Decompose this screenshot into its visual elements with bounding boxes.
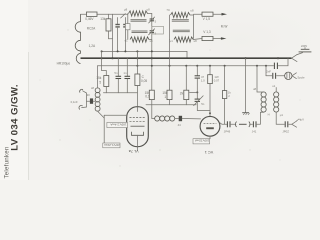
tube VL7a bottom pin stub xyxy=(137,147,139,151)
tube VC1 bottom stub xyxy=(209,136,211,139)
antenna coil xyxy=(95,88,100,111)
svg-text:VC 1: VC 1 xyxy=(205,150,213,154)
measurement box 185V,2,4mA xyxy=(107,122,128,127)
resistor box C column x186.3 xyxy=(185,66,187,90)
cap column x127.3 xyxy=(126,58,128,76)
mains plug xyxy=(292,55,298,62)
tube VL7a envelope xyxy=(127,107,149,147)
svg-text:u8: u8 xyxy=(190,9,194,13)
svg-text:0,46V: 0,46V xyxy=(85,17,94,21)
svg-text:30: 30 xyxy=(87,93,91,97)
svg-text:H: H xyxy=(268,112,270,116)
svg-text:4μV: 4μV xyxy=(299,118,304,122)
svg-text:μ8: μ8 xyxy=(124,8,128,12)
svg-text:V 1,3: V 1,3 xyxy=(203,30,211,34)
junction dots on rails xyxy=(101,50,280,114)
IF2 primary zigzag xyxy=(171,12,191,17)
svg-text:1,0: 1,0 xyxy=(201,79,205,83)
svg-text:Telefunken: Telefunken xyxy=(3,147,10,179)
wire to output resistor top xyxy=(190,14,193,16)
IF1 secondary coil zigzag xyxy=(130,37,149,42)
tube VC1 right pin wire xyxy=(220,123,227,125)
cap C3 chain xyxy=(284,121,286,127)
wire up to choke1 xyxy=(257,112,264,124)
lamp fork xyxy=(292,73,296,79)
cap C1 chain xyxy=(226,121,228,127)
cathode rail y92.7 xyxy=(103,92,137,94)
svg-text:u1: u1 xyxy=(272,84,276,88)
page crease line xyxy=(28,52,30,180)
scan speckles xyxy=(39,29,300,166)
svg-text:1: 1 xyxy=(164,95,166,99)
resistor box A on column x151.8 xyxy=(149,90,154,99)
svg-text:220V: 220V xyxy=(301,44,307,48)
dial lamp xyxy=(285,72,292,79)
variable cap with arrow xyxy=(195,98,200,100)
choke coil 2 xyxy=(274,92,279,112)
svg-text:0,05: 0,05 xyxy=(141,79,147,83)
svg-text:HR100μe: HR100μe xyxy=(57,61,71,65)
IF2 right column xyxy=(192,15,194,39)
svg-text:JP49: JP49 xyxy=(224,130,231,134)
IF2 core bars top xyxy=(172,19,189,21)
svg-text:180V,52mA: 180V,52mA xyxy=(195,139,209,143)
choke coil 1 xyxy=(261,92,266,112)
small box on column xyxy=(125,24,130,30)
output resistor V1,5 top xyxy=(202,12,213,16)
svg-text:2nF: 2nF xyxy=(266,69,271,73)
svg-text:s8: s8 xyxy=(91,86,94,90)
IF transformer 1 left column xyxy=(127,14,129,40)
chassis symbol xyxy=(242,112,249,114)
svg-text:LV 034 G/GW.: LV 034 G/GW. xyxy=(10,84,21,151)
lower rail y65.8 xyxy=(98,65,274,67)
IF1 core bars top xyxy=(131,19,147,21)
svg-text:JP0Z: JP0Z xyxy=(282,130,289,134)
stub rail y92.4 xyxy=(190,91,198,93)
coil bottom wire down-left of tube xyxy=(98,111,105,143)
pickup fork xyxy=(289,123,292,125)
svg-text:44: 44 xyxy=(178,123,182,127)
earth drop from bus x245.6 xyxy=(245,58,247,112)
resistor box B column x169.5 xyxy=(169,40,171,91)
svg-text:Spule: Spule xyxy=(297,75,305,79)
svg-text:0,1nF: 0,1nF xyxy=(71,100,78,104)
svg-text:1n: 1n xyxy=(123,71,127,75)
trimmer cap 2 xyxy=(150,30,154,32)
svg-text:u1: u1 xyxy=(125,39,129,43)
svg-text:0,1: 0,1 xyxy=(145,95,150,99)
output chain bottom right xyxy=(226,123,228,125)
tube VC1 internals xyxy=(204,122,217,124)
resistor box 1W column x210 xyxy=(209,66,211,75)
svg-text:u8: u8 xyxy=(253,87,257,91)
shielded link xyxy=(231,123,236,125)
grid block cap xyxy=(179,116,182,121)
svg-text:u8: u8 xyxy=(194,39,198,43)
grid coupling coil horizontal xyxy=(152,118,155,120)
mains rail branch row y75.8 xyxy=(265,66,267,76)
svg-text:2k: 2k xyxy=(180,91,184,95)
wire and arrow bottom xyxy=(213,38,221,40)
svg-text:207V,1,23mA: 207V,1,23mA xyxy=(104,143,120,147)
svg-text:13k: 13k xyxy=(100,17,106,21)
volume pot column x224.6 xyxy=(224,66,226,91)
svg-text:VL 7a: VL 7a xyxy=(128,149,139,153)
svg-text:5n: 5n xyxy=(201,102,205,106)
svg-text:J41: J41 xyxy=(252,130,257,134)
cap column x118.3 xyxy=(117,58,119,76)
IF transformer 2 left column xyxy=(169,15,171,40)
IF2 core bars bottom xyxy=(173,29,190,31)
svg-text:0,07: 0,07 xyxy=(214,79,220,83)
choke2 down to cap C3 xyxy=(276,112,284,124)
tube VL7a internals xyxy=(137,107,139,112)
svg-text:u8: u8 xyxy=(147,7,151,11)
cathode rail 2 xyxy=(146,104,196,106)
series cap in lower rail xyxy=(273,63,275,69)
svg-text:RC2A: RC2A xyxy=(87,27,96,31)
svg-text:V 1,5: V 1,5 xyxy=(203,17,211,21)
IF1 primary coil zigzag xyxy=(129,11,148,16)
series block cap to coil xyxy=(87,100,90,102)
resistor box 0,46V xyxy=(87,12,98,16)
svg-text:1,2A: 1,2A xyxy=(89,44,96,48)
measurement box 180V,52mA xyxy=(193,139,210,144)
block capacitor pair B xyxy=(124,18,126,24)
coil top feed xyxy=(97,66,99,88)
screen can rectangle xyxy=(152,26,164,34)
svg-text:185V,2,4mA: 185V,2,4mA xyxy=(110,122,126,126)
cap C2 chain xyxy=(252,121,254,127)
wire into tube left pin xyxy=(104,114,127,116)
IF1 right column / long column x151.8 xyxy=(148,13,152,15)
column x101.6 with resistor 15k xyxy=(101,51,103,70)
thin rail y51.4 xyxy=(102,51,187,58)
paper background xyxy=(0,0,320,180)
resistor column x137.4 xyxy=(136,51,138,74)
svg-text:μ1: μ1 xyxy=(170,39,174,43)
wire vertical x112.5 xyxy=(112,14,114,58)
IF2 secondary zigzag xyxy=(174,37,193,42)
main bus (thick) xyxy=(81,57,292,59)
trimmer arrow xyxy=(121,14,126,18)
heater ballast element (bumped wire) xyxy=(75,14,80,63)
svg-text:5n: 5n xyxy=(114,71,118,75)
svg-text:5: 5 xyxy=(99,80,101,84)
svg-text:M.W: M.W xyxy=(221,24,228,28)
top wire from ballast to IF1 xyxy=(81,13,87,15)
trimmer cap 1 xyxy=(150,18,154,20)
svg-text:7C: 7C xyxy=(166,8,170,12)
wire and arrow top xyxy=(213,13,222,15)
block capacitor pair A xyxy=(117,18,119,24)
tube VC1 envelope xyxy=(200,116,220,136)
cap 2nF xyxy=(272,73,274,79)
svg-text:μ1: μ1 xyxy=(280,113,284,117)
IF1 core bars bottom xyxy=(132,30,148,32)
measurement box 207V,1,23mA xyxy=(103,143,120,148)
aerial sockets xyxy=(80,89,83,92)
column x197.3 with caps xyxy=(196,66,198,76)
